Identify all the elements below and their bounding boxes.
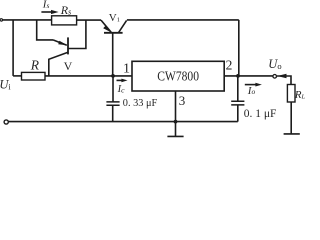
- transistor V1 base lead down to node C: [112, 33, 114, 76]
- svg-text:0. 33 μF: 0. 33 μF: [123, 97, 157, 109]
- arrowhead V1 emitter: [103, 26, 111, 33]
- arrowhead of Is: [51, 10, 59, 14]
- wire: input terminal to Rs: [3, 19, 52, 21]
- transistor V collector: [49, 52, 68, 76]
- arrow Io (output current): [245, 84, 257, 86]
- arrowhead of Ic: [121, 79, 127, 83]
- wire: pin 2 to output terminal: [224, 75, 272, 77]
- wire: R row left: [13, 75, 21, 77]
- input terminal (top left): [0, 19, 2, 21]
- ground rail junction dot at pin 3: [174, 120, 178, 124]
- svg-text:0. 1 μF: 0. 1 μF: [244, 108, 277, 120]
- node C junction dot (V1 base / pin1): [111, 74, 115, 78]
- capacitor C2 plates: [231, 101, 244, 105]
- svg-text:CW7800: CW7800: [157, 69, 199, 84]
- transistor V base lead to node B: [68, 20, 86, 48]
- arrow Is (current into Rs): [41, 11, 52, 13]
- svg-text:Ic: Ic: [117, 84, 126, 95]
- svg-text:R: R: [30, 57, 40, 72]
- svg-text:Io: Io: [247, 85, 256, 97]
- capacitor C1 plates: [106, 102, 119, 105]
- wire: R to CW7800 pin 1: [45, 75, 132, 77]
- arrow Ic (current into pin 1): [117, 79, 123, 81]
- svg-text:Is: Is: [42, 0, 50, 10]
- ground rail (bottom): [8, 121, 238, 123]
- svg-text:V: V: [64, 59, 73, 73]
- ground bar under RL: [284, 133, 300, 135]
- arrowhead of Io: [255, 83, 262, 87]
- wire: RL to ground: [290, 102, 292, 134]
- resistor RL: [287, 85, 295, 103]
- capacitor C2 bottom lead: [237, 105, 239, 122]
- output node junction dot: [236, 74, 240, 78]
- op-amp U1 regulator CW7800 box: [132, 61, 224, 91]
- transistor V base bar: [67, 37, 69, 54]
- wire: vertical to emitter of V: [37, 20, 53, 40]
- wire: pin 3 down to ground: [175, 91, 177, 136]
- svg-text:2: 2: [226, 57, 233, 72]
- resistor R: [22, 72, 46, 80]
- capacitor C1 0.33uF top lead: [112, 76, 114, 102]
- ground bar under pin 3: [167, 135, 183, 137]
- ground terminal (bottom left): [4, 120, 8, 124]
- transistor V1 collector: [118, 20, 126, 32]
- arrowhead on output wire (pointing left into terminal): [277, 74, 287, 79]
- output terminal Uo: [273, 75, 277, 79]
- wire: vertical from top rail down to R row: [12, 20, 14, 76]
- top rail: V1 collector to right corner: [127, 19, 239, 21]
- resistor Rs: [52, 16, 77, 25]
- wire: right vertical drop to output node: [238, 20, 240, 76]
- capacitor C1 bottom lead: [112, 105, 114, 121]
- wire: output terminal to RL: [277, 76, 291, 85]
- transistor V emitter (arrow into bar, PNP): [53, 40, 67, 45]
- transistor V1 emitter (arrow into bar, PNP): [101, 20, 111, 32]
- svg-text:1: 1: [123, 61, 130, 76]
- arrowhead V emitter: [58, 41, 67, 46]
- capacitor C2 0.1uF top lead: [237, 76, 239, 101]
- transistor V1 base bar: [104, 32, 123, 34]
- wire: Rs to V1 emitter: [77, 19, 101, 21]
- svg-text:3: 3: [179, 93, 186, 108]
